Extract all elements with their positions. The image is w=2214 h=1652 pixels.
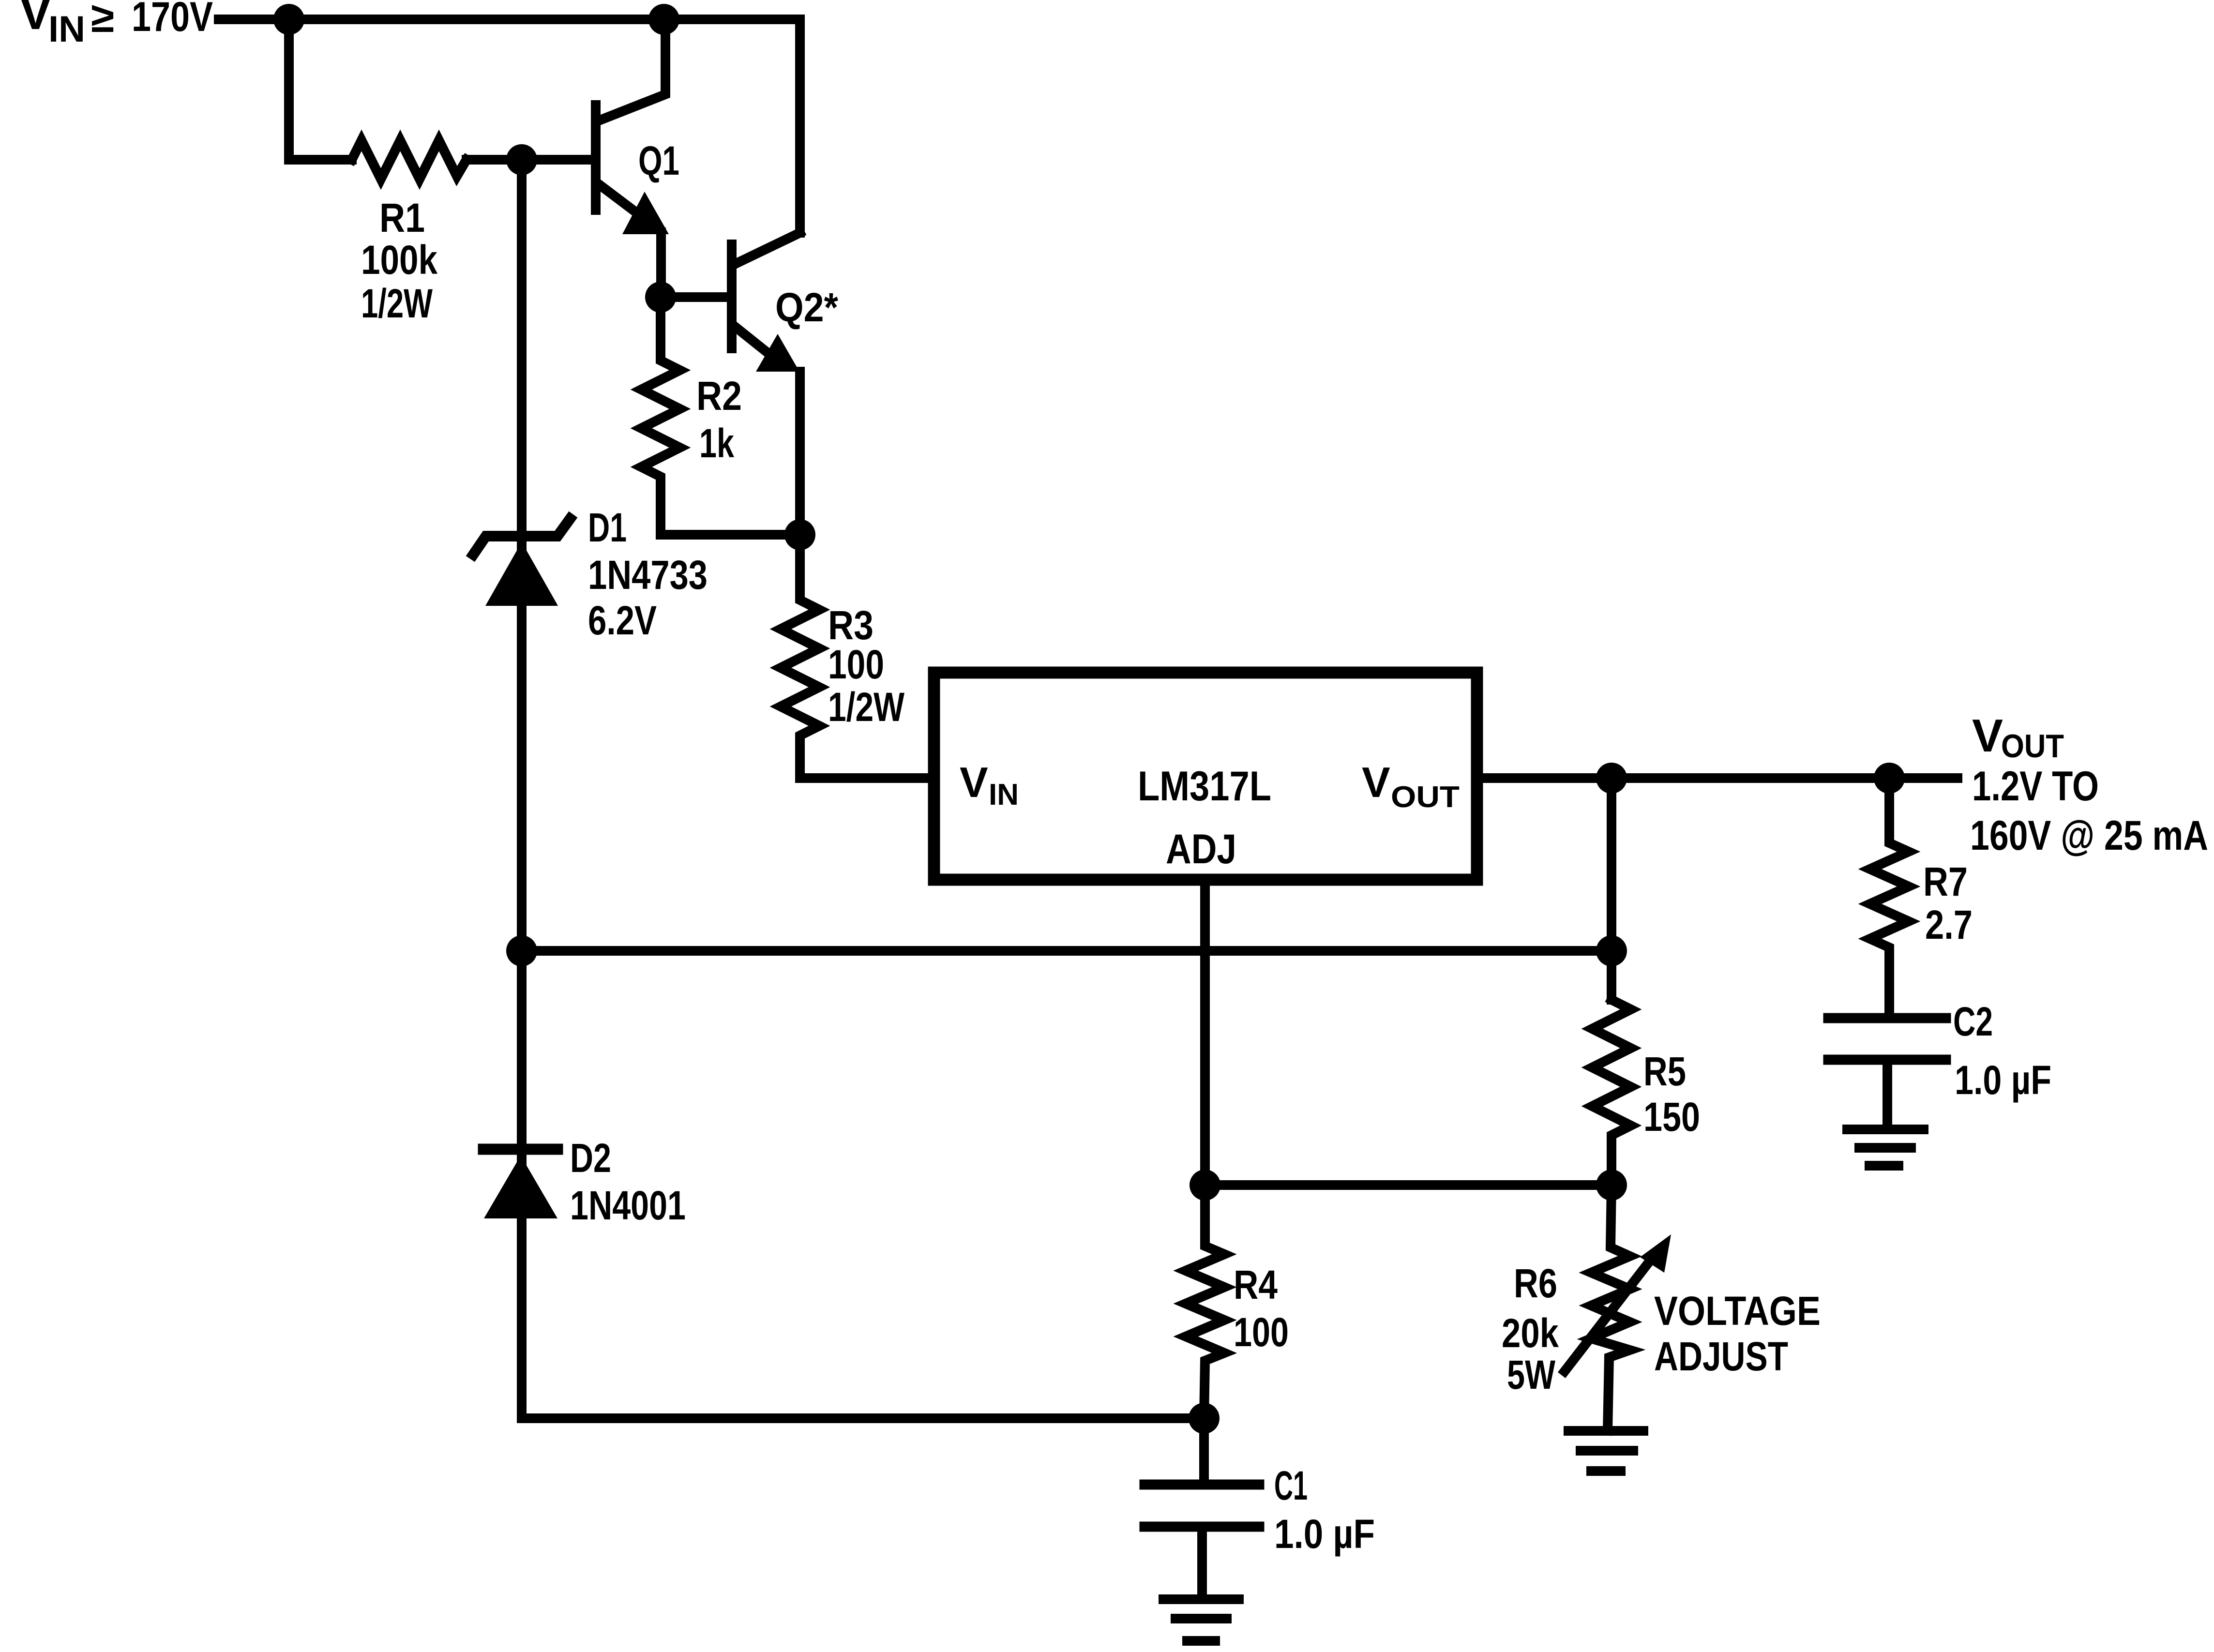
svg-text:IN: IN [48,9,85,50]
label R2 value [696,373,742,466]
svg-text:Q1: Q1 [638,138,679,183]
svg-text:ADJUST: ADJUST [1654,1334,1788,1379]
node R1/D1 junction B [506,144,537,175]
svg-text:1/2W: 1/2W [361,281,433,326]
svg-text:1N4733: 1N4733 [588,552,708,598]
node D1 bottom junction F [506,935,537,966]
svg-text:1.0 µF: 1.0 µF [1955,1057,2051,1103]
diode D2 1N4001 [483,1149,557,1218]
svg-text:Q2*: Q2* [775,285,838,330]
node R4 row junction J [1190,1170,1220,1201]
svg-text:ADJ: ADJ [1166,826,1236,872]
wire top rail from VIN to right corner [219,19,800,233]
svg-text:R1: R1 [379,195,425,240]
label VIN >= 170V [19,0,213,50]
svg-text:OUT: OUT [2001,728,2064,765]
wire ADJ row horizontal D1-to-R5 [522,946,1612,956]
svg-text:1k: 1k [699,421,734,466]
label VOUT output [1970,710,2208,859]
node Q1 collector junction [648,4,679,35]
node VOUT/R7 junction I [1874,763,1905,794]
svg-text:100k: 100k [361,237,437,283]
wire Q1 emitter to Q2 base [661,292,729,302]
label VOLTAGE ADJUST [1654,1288,1821,1379]
wire ADJ pin vertical [1200,880,1210,1185]
ground below C1 [1163,1599,1239,1641]
svg-text:VOLTAGE: VOLTAGE [1654,1288,1821,1334]
resistor R4 [1186,1185,1224,1418]
label C2 value [1953,999,2051,1103]
wire VIN branch down to R1 row [289,19,352,160]
svg-text:1/2W: 1/2W [828,684,905,730]
node R2/R3 junction E [784,519,815,550]
wire R4-to-R6 row [1205,1180,1612,1190]
ground below R6 [1568,1431,1643,1471]
wire bottom rail D2-to-C1 [522,1413,1204,1423]
resistor R5 [1592,1000,1631,1185]
label R6 value [1502,1261,1559,1397]
svg-text:V: V [960,758,988,806]
label R3 value [828,602,905,730]
zener diode D1 1N4733 [473,519,570,606]
svg-text:160V @ 25 mA: 160V @ 25 mA [1970,812,2208,859]
svg-text:≥: ≥ [91,0,114,41]
svg-text:LM317L: LM317L [1138,763,1271,810]
node VOUT/R5 junction H [1596,763,1627,794]
svg-text:1.0 µF: 1.0 µF [1274,1511,1375,1557]
svg-text:100: 100 [1234,1309,1289,1355]
label R7 value [1923,859,1973,947]
transistor Q2 [727,244,737,348]
svg-text:D2: D2 [570,1135,611,1181]
resistor R3 [781,535,934,778]
ground below C2 [1847,1129,1924,1166]
svg-text:R3: R3 [828,602,874,648]
label LM317L pins [960,758,1460,872]
svg-text:V: V [19,0,52,40]
svg-text:C1: C1 [1274,1463,1308,1508]
svg-text:170V: 170V [132,0,213,40]
label D1 value [588,505,708,643]
svg-text:V: V [1362,758,1390,806]
svg-text:R6: R6 [1514,1261,1557,1306]
svg-text:150: 150 [1643,1094,1700,1140]
pot R6 wiper arrow [1565,1234,1671,1371]
capacitor C2 [1828,1018,1946,1125]
svg-text:C2: C2 [1953,999,1993,1044]
svg-text:V: V [1972,710,2003,762]
capacitor C1 [1145,1418,1259,1594]
transistor Q1 [591,105,601,210]
label D2 value [570,1135,686,1228]
svg-text:R2: R2 [696,373,742,419]
wire R5 upper lead [1607,778,1616,1000]
svg-text:1N4001: 1N4001 [570,1183,686,1228]
svg-text:6.2V: 6.2V [588,598,657,643]
wire R1 to Q1 base [467,155,591,165]
label R4 value [1234,1262,1289,1355]
op-amp U1 LM317L regulator box [934,673,1477,880]
svg-text:R4: R4 [1234,1262,1278,1307]
label R1 value [361,195,437,326]
node R5/R6 junction K [1596,1170,1627,1201]
svg-text:20k: 20k [1502,1310,1559,1356]
svg-text:IN: IN [989,778,1019,811]
label R5 value [1643,1049,1700,1140]
node R5 top junction G [1596,935,1627,966]
resistor R2 [641,297,800,535]
svg-text:1.2V TO: 1.2V TO [1972,763,2099,810]
svg-text:2.7: 2.7 [1925,902,1973,947]
svg-text:100: 100 [828,642,884,687]
label C1 value [1274,1463,1375,1557]
svg-text:D1: D1 [588,505,627,550]
wire left vertical rail (D1/D2 branch) [517,160,527,1418]
svg-text:R5: R5 [1643,1049,1686,1094]
resistor R1 [352,140,467,179]
potentiometer R6 [1591,1185,1630,1431]
node Q1 emitter / Q2 base junction D [645,282,676,313]
resistor R7 [1870,778,1909,1013]
svg-text:OUT: OUT [1391,781,1460,814]
node C1 junction C [1189,1403,1220,1434]
node VIN junction A [273,4,304,35]
wire VOUT pin to output [1477,773,1958,783]
svg-text:5W: 5W [1507,1352,1556,1397]
svg-text:R7: R7 [1923,859,1968,904]
